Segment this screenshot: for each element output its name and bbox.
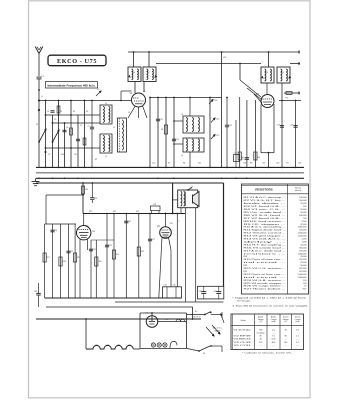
trimmer arrow C13 <box>211 100 213 102</box>
wire: vert x185.4 <box>184 214 186 303</box>
svg-text:S1: S1 <box>203 353 205 355</box>
svg-text:V2: V2 <box>107 345 109 347</box>
dial lamp LP3 <box>163 343 167 347</box>
svg-text:C25: C25 <box>290 125 293 127</box>
svg-text:C19: C19 <box>262 163 265 165</box>
trimmer arrow C15 <box>213 135 215 137</box>
svg-text:C4: C4 <box>47 111 49 113</box>
svg-text:1,500: 1,500 <box>301 241 307 243</box>
svg-text:S4: S4 <box>190 188 192 190</box>
wire: stubs to osc coils <box>174 120 183 122</box>
resistor R8 on x255.4 <box>254 152 257 160</box>
capacitor C30 <box>50 229 54 231</box>
resistor R18 <box>59 257 62 266</box>
svg-text:EKCO - U75: EKCO - U75 <box>57 58 97 65</box>
capacitor C10 on x158 <box>156 118 160 120</box>
capacitor C32 <box>66 250 70 252</box>
output transformer T1 <box>178 190 198 208</box>
svg-text:R7 V2 fixed G.B. ...: R7 V2 fixed G.B. ... <box>244 218 287 220</box>
svg-text:S1: S1 <box>36 124 38 126</box>
svg-text:L4: L4 <box>181 114 183 116</box>
resistor R19 <box>74 253 77 262</box>
wire: aerial bus y100.5 <box>39 100 131 102</box>
capacitor C16 <box>225 124 229 126</box>
svg-text:25,000: 25,000 <box>300 256 307 258</box>
svg-text:1.1: 1.1 <box>296 336 299 338</box>
svg-text:L6: L6 <box>133 72 135 74</box>
wire: AF vert x96.3 <box>95 240 97 298</box>
wire: link y152.7 <box>261 152 274 154</box>
svg-text:128: 128 <box>259 329 262 331</box>
wire: vert x192.5 <box>192 307 194 319</box>
svg-text:50,000: 50,000 <box>300 212 307 214</box>
wire: rail drop x149 <box>148 52 150 67</box>
svg-text:V1 6C9 (fc): V1 6C9 (fc) <box>234 329 252 331</box>
svg-text:trol circuit ...: trol circuit ... <box>244 276 288 279</box>
capacitor C28 <box>105 244 109 246</box>
svg-text:R12 Volume control ...: R12 Volume control ... <box>244 232 287 235</box>
mains arrows A.C. or D.C. <box>206 327 214 336</box>
wire: bus y172.9 <box>36 172 304 174</box>
svg-text:C33: C33 <box>153 204 156 206</box>
svg-text:C11: C11 <box>74 154 77 156</box>
junction dots anode bus <box>106 213 108 215</box>
wire: AF vert x68.5 <box>68 224 70 298</box>
svg-text:—: — <box>273 345 275 347</box>
capacitor C25 on x295.6 <box>294 125 298 127</box>
svg-text:R25 V4 anode stopper ...: R25 V4 anode stopper ... <box>244 282 287 285</box>
svg-text:25,000: 25,000 <box>300 203 307 205</box>
wire: link y115 <box>46 114 101 116</box>
capacitor C21 on x246.9 <box>245 157 249 159</box>
svg-text:R24: R24 <box>98 261 101 263</box>
oscillator coil L5 <box>181 138 204 157</box>
svg-text:1,000,000: 1,000,000 <box>298 253 308 255</box>
switch S1a wave-change <box>39 129 46 142</box>
wire: HT right vertical x223.5 <box>223 183 225 286</box>
svg-text:R25: R25 <box>141 251 144 253</box>
svg-text:L1: L1 <box>105 103 107 105</box>
svg-text:V2 EF39: V2 EF39 <box>234 336 251 338</box>
fuse / thermal R26 <box>176 319 185 321</box>
svg-text:—: — <box>297 345 299 347</box>
svg-text:R14 V3 G.B. A.G.C. ...: R14 V3 G.B. A.G.C. ... <box>244 238 287 241</box>
wire: vert x186.5 <box>186 313 188 348</box>
wire: AF vert x126.3 <box>125 214 127 299</box>
wire: vert x86 heater feed <box>85 319 87 349</box>
table: RESISTORS values <box>242 184 309 294</box>
wire: anode bus y213.5 <box>83 213 185 215</box>
wire: rail drop x268.5 <box>268 52 270 67</box>
svg-text:L3: L3 <box>128 112 130 114</box>
coil L3 with core <box>118 118 127 152</box>
valve V5 (rectifier) <box>146 313 158 328</box>
svg-text:C44: C44 <box>199 291 202 293</box>
svg-text:R1: R1 <box>60 111 62 113</box>
svg-text:R20: R20 <box>89 211 92 213</box>
wire: grid link y195 <box>46 194 83 196</box>
svg-text:feeder divider ...: feeder divider ... <box>244 203 287 205</box>
wire: IFT1 to V1 <box>134 82 136 94</box>
svg-text:2,200: 2,200 <box>301 239 307 241</box>
wire: AF vert x60.5 <box>60 224 62 298</box>
svg-text:L7: L7 <box>148 72 150 74</box>
svg-text:R19 Parts of tone con- ...: R19 Parts of tone con- ... <box>244 258 287 261</box>
svg-text:V4: V4 <box>129 345 131 347</box>
svg-text:R13 V3 grid stopper ...: R13 V3 grid stopper ... <box>244 235 287 238</box>
trimmer arrow C14 <box>213 118 215 120</box>
resistor R15 <box>112 250 115 259</box>
wire: link y123 <box>53 122 101 124</box>
svg-text:1,000,000: 1,000,000 <box>298 236 308 238</box>
capacitor C29 <box>89 248 93 250</box>
svg-text:C43: C43 <box>34 291 37 293</box>
wire: vert x210 <box>209 98 211 168</box>
capacitor C31a <box>91 183 93 197</box>
svg-text:R18: R18 <box>63 261 66 263</box>
node: aerial junction <box>38 89 40 91</box>
svg-text:4.1: 4.1 <box>296 342 299 344</box>
wire: bus y167.4 (chassis) <box>36 166 304 168</box>
label: Intermediate Frequency 465 kc/s <box>46 82 98 89</box>
svg-text:(V): (V) <box>285 321 288 323</box>
svg-text:C35: C35 <box>173 285 176 287</box>
svg-text:100,000: 100,000 <box>299 215 307 217</box>
svg-text:C39: C39 <box>92 231 95 233</box>
coil L2 aerial <box>100 134 112 158</box>
switch S2 <box>187 314 205 316</box>
heater chain V1-V4 heaters <box>86 345 133 349</box>
capacitor C1 in aerial lead <box>37 76 42 78</box>
IF transformer IFT1 primary <box>128 67 141 82</box>
oscillator coil L4 <box>181 114 204 133</box>
svg-text:delay ...: delay ... <box>244 241 289 243</box>
dial lamp LP2 <box>157 343 161 347</box>
resistor R2 on x71 <box>70 128 73 135</box>
svg-text:L2: L2 <box>113 127 115 129</box>
ganged capacitor C3 arrow <box>96 91 101 96</box>
svg-text:Valve: Valve <box>240 320 246 322</box>
valve V1 (triode-hexode frequency changer) <box>130 91 146 107</box>
svg-text:C13: C13 <box>214 100 217 102</box>
svg-text:S2: S2 <box>195 311 197 313</box>
svg-text:5,000,000: 5,000,000 <box>298 274 308 276</box>
wire: lamp compartment wall <box>139 313 141 348</box>
wire: vert x236 upper <box>235 120 237 167</box>
svg-text:‡ Two 80 Ω resistors in series: ‡ Two 80 Ω resistors in series in out we… <box>232 304 309 307</box>
switch S4 on transformer <box>187 189 189 191</box>
wire: vert x46 <box>45 195 47 224</box>
svg-text:85: 85 <box>260 336 262 338</box>
svg-text:R22: R22 <box>136 211 139 213</box>
svg-text:A.C. or D.C.: A.C. or D.C. <box>213 327 223 330</box>
svg-text:470,000: 470,000 <box>299 268 307 270</box>
svg-text:* Tapped at 240 Ω + 160 Ω + 10: * Tapped at 240 Ω + 160 Ω + 100 Ω from <box>232 297 306 300</box>
capacitor C5 on x64.5 <box>63 129 67 131</box>
svg-text:2,500: 2,500 <box>301 221 307 223</box>
wire: rail drop x133 <box>133 52 135 67</box>
svg-text:L2: L2 <box>105 156 107 158</box>
svg-text:C40: C40 <box>214 291 217 293</box>
svg-text:Intermediate Frequency 465 kc/: Intermediate Frequency 465 kc/s. <box>48 83 96 87</box>
svg-text:R5 Osc. anode load ...: R5 Osc. anode load ... <box>244 212 287 214</box>
svg-text:1,000,000: 1,000,000 <box>298 227 308 229</box>
capacitor C4 on x52.5 <box>51 110 55 112</box>
wire: rail y93 <box>284 92 300 94</box>
coil L1 aerial <box>100 103 112 124</box>
thermistor loop <box>170 341 177 348</box>
svg-text:R1 V1 A.G.C. decoup ...: R1 V1 A.G.C. decoup ... <box>244 196 287 199</box>
wire: vert x64.5 <box>64 123 66 167</box>
wire: vert x177.3 <box>176 214 178 287</box>
wire: vert x84.5 <box>84 101 86 168</box>
wire: heater chain to compartment <box>133 348 140 350</box>
svg-text:47,000: 47,000 <box>300 224 307 226</box>
svg-text:R3 V1 fixed G.B. ...: R3 V1 fixed G.B. ... <box>244 206 287 208</box>
svg-text:C30: C30 <box>54 230 57 232</box>
svg-text:470,000: 470,000 <box>299 259 307 261</box>
wire: AF vert x114 <box>113 214 115 299</box>
IF transformer IFT2 primary <box>261 67 274 83</box>
svg-text:R9: R9 <box>250 163 252 165</box>
resistor R7 on x239.7 <box>238 152 241 160</box>
svg-text:C20: C20 <box>276 163 279 165</box>
wire: bus y183 (AVC line) <box>36 182 224 184</box>
svg-text:R11 Signal diode load ...: R11 Signal diode load ... <box>244 230 287 232</box>
switch S1 mains <box>199 346 210 351</box>
wire: V2 envelope down left <box>260 105 262 153</box>
wire: vert x255.4 <box>254 100 256 167</box>
wire: vert x150 <box>149 98 151 168</box>
svg-text:R21: R21 <box>113 211 116 213</box>
wire: vert x195.7 <box>195 208 197 302</box>
svg-text:L9: L9 <box>282 72 284 74</box>
svg-text:25,000: 25,000 <box>300 265 307 267</box>
wire: rail drop x221.5 <box>221 52 223 98</box>
resistor R25 <box>137 247 140 256</box>
wire: IFT2 secondary down x282 <box>281 83 283 167</box>
svg-text:—: — <box>297 339 299 341</box>
wire: vert x246.9 <box>246 100 248 167</box>
wire: fan into V2 <box>240 80 261 97</box>
wire: vert x166 <box>165 98 167 168</box>
wire: V4 pins <box>165 214 167 227</box>
svg-text:C27: C27 <box>152 239 155 241</box>
resistor R16 <box>82 183 84 214</box>
capacitor C17 box <box>234 155 240 162</box>
svg-text:R21 V4 C.G. resistor ...: R21 V4 C.G. resistor ... <box>244 267 287 270</box>
svg-text:resistors ...: resistors ... <box>244 252 288 255</box>
svg-text:C26: C26 <box>298 163 301 165</box>
wire: vert x52.5 <box>52 115 54 167</box>
svg-text:V3 EBC33: V3 EBC33 <box>234 339 251 341</box>
svg-text:C21: C21 <box>241 159 244 161</box>
resistor R17 <box>43 253 46 262</box>
svg-text:R17: R17 <box>47 257 50 259</box>
svg-text:L1: L1 <box>41 96 43 98</box>
svg-text:(mA): (mA) <box>296 320 300 323</box>
svg-text:V5 CY31: V5 CY31 <box>234 345 251 347</box>
wire: mains stubs <box>221 312 223 318</box>
wire: aerial down x39 <box>38 79 40 167</box>
ground chassis symbol <box>32 178 40 185</box>
dial lamp LP1 <box>151 343 155 347</box>
wire: vert x190 bottom <box>189 152 191 167</box>
wire: bus y313 <box>140 312 187 314</box>
svg-text:trol circuit ...: trol circuit ... <box>244 261 288 264</box>
svg-text:5,000,000: 5,000,000 <box>298 277 308 279</box>
svg-text:RESISTORS: RESISTORS <box>255 188 272 192</box>
wire: right vert x295.6 <box>295 101 297 168</box>
wire: V2 envelope down right <box>273 104 275 153</box>
svg-text:25,000: 25,000 <box>300 262 307 264</box>
svg-text:45: 45 <box>260 339 262 341</box>
svg-text:C26: C26 <box>170 223 173 225</box>
svg-text:R15 H.T. decoupling ...: R15 H.T. decoupling ... <box>244 244 287 246</box>
wire: AF vert x91 <box>90 240 92 298</box>
capacitor C31b <box>124 220 128 222</box>
wire: AF vert x150 <box>149 214 151 299</box>
svg-text:C14: C14 <box>216 119 219 121</box>
resistor R4 on x166 <box>164 125 167 134</box>
svg-text:(ohms): (ohms) <box>295 190 302 192</box>
svg-text:1.6: 1.6 <box>296 329 299 331</box>
antenna <box>35 47 43 77</box>
svg-text:R27 Heater ballast ...: R27 Heater ballast ... <box>244 288 287 291</box>
svg-text:470,000: 470,000 <box>299 230 307 232</box>
wire: vert x190 top <box>189 98 191 117</box>
wire: vert x174 <box>173 98 175 168</box>
svg-text:470,000: 470,000 <box>299 271 307 273</box>
svg-text:V1: V1 <box>96 345 98 347</box>
switch S1b <box>53 130 60 142</box>
svg-text:R10 A.G.C. decoupling ...: R10 A.G.C. decoupling ... <box>244 226 287 229</box>
IF transformer IFT1 secondary <box>143 67 156 82</box>
loudspeaker <box>193 192 200 207</box>
svg-text:350,000: 350,000 <box>299 247 307 249</box>
wire: IFT2 primary down to V2 <box>266 83 268 94</box>
svg-text:C40: C40 <box>152 163 155 165</box>
wire: bus y178.3 <box>36 177 304 179</box>
svg-text:R6: R6 <box>286 98 288 100</box>
resistor R22 top hat <box>151 206 161 211</box>
valve V2 (IF amplifier) <box>256 93 274 108</box>
svg-text:L5: L5 <box>181 155 183 157</box>
svg-text:C3: C3 <box>97 89 99 91</box>
svg-text:C34: C34 <box>164 285 167 287</box>
wire: AF vert x107 <box>106 214 108 299</box>
svg-text:C16: C16 <box>229 125 232 127</box>
wire: V1 grid lead y91 <box>121 90 132 92</box>
wire: drop x268.5 to bus <box>268 153 270 168</box>
IF transformer IFT2 secondary <box>277 67 290 83</box>
svg-text:40.0: 40.0 <box>272 342 276 344</box>
svg-text:—: — <box>285 339 287 341</box>
wire: OPT leads <box>180 208 182 214</box>
wire: vert x78 <box>77 115 79 167</box>
svg-text:C41: C41 <box>198 163 201 165</box>
svg-text:140 TR T2: 140 TR T2 <box>193 317 201 319</box>
wire: bus y319 <box>36 318 201 320</box>
svg-text:R16: R16 <box>85 189 88 191</box>
resistor R24 <box>95 257 98 266</box>
capacitor C43 bottom left <box>38 283 40 293</box>
svg-text:R23 Parts of fuse con- ...: R23 Parts of fuse con- ... <box>244 273 287 276</box>
svg-text:C29: C29 <box>93 249 96 251</box>
svg-text:R6 V2 S.G. feed ...: R6 V2 S.G. feed ... <box>244 215 287 217</box>
electrolytic capacitors C34 C35 <box>163 285 182 299</box>
svg-text:C18: C18 <box>243 163 246 165</box>
svg-text:R17 A.G.C. diode load ...: R17 A.G.C. diode load ... <box>244 249 287 252</box>
svg-text:R3: R3 <box>86 111 88 113</box>
svg-text:R4 V1 osc. C.G. ...: R4 V1 osc. C.G. ... <box>244 209 287 211</box>
svg-text:20,000: 20,000 <box>300 244 307 246</box>
svg-text:R15: R15 <box>116 254 119 256</box>
wire: link y240 <box>91 239 114 241</box>
valve V4 (output pentode) <box>157 223 173 238</box>
capacitor C6 on x78 <box>76 138 80 140</box>
wire: rect anode <box>151 313 153 316</box>
svg-text:350,000: 350,000 <box>299 200 307 202</box>
wire: vert x239.7 <box>239 97 241 167</box>
wire: rail drop x240 <box>239 64 241 81</box>
wire: V3 pins <box>79 240 81 299</box>
svg-text:750*: 750* <box>302 289 306 291</box>
svg-text:V3: V3 <box>118 345 120 347</box>
wire: cathode link y224 <box>45 223 76 225</box>
svg-text:C6: C6 <box>66 127 68 129</box>
node dots front end <box>38 109 40 111</box>
svg-text:R8 H.F. feed resistor ...: R8 H.F. feed resistor ... <box>244 220 287 223</box>
svg-text:L8: L8 <box>266 72 268 74</box>
svg-text:170: 170 <box>259 342 262 344</box>
svg-text:C5: C5 <box>54 119 56 121</box>
svg-text:R6: R6 <box>183 163 185 165</box>
svg-text:C15: C15 <box>216 135 219 137</box>
wire: AF vert x138.8 <box>138 214 140 299</box>
svg-text:R16 V3 anode load ...: R16 V3 anode load ... <box>244 247 287 249</box>
svg-text:25,000: 25,000 <box>300 209 307 211</box>
svg-text:C31: C31 <box>128 221 131 223</box>
wire: mid rail y63.5 <box>156 63 261 65</box>
svg-text:165: 165 <box>284 342 287 344</box>
svg-text:C28: C28 <box>109 245 112 247</box>
wire: vert x58.5 <box>58 101 60 168</box>
trimmer arrows IFT1 <box>128 75 130 77</box>
svg-text:C31: C31 <box>94 198 97 200</box>
wire: rect cathode lead <box>158 321 187 323</box>
wire: bus y298 <box>45 297 182 299</box>
svg-text:C10: C10 <box>160 119 163 121</box>
svg-text:(V): (V) <box>260 321 263 323</box>
trimmer arrows IFT2 <box>261 76 263 78</box>
wire: rail y100.5 right <box>279 100 301 102</box>
capacitor C27 <box>148 238 152 240</box>
svg-text:R8: R8 <box>257 157 259 159</box>
svg-text:7.0: 7.0 <box>272 336 275 338</box>
svg-text:—: — <box>260 345 262 347</box>
svg-text:MAINS: MAINS <box>215 329 222 332</box>
svg-text:—: — <box>273 333 275 335</box>
svg-text:C32: C32 <box>70 251 73 253</box>
svg-text:V4 CL33: V4 CL33 <box>234 342 251 344</box>
svg-text:R14: R14 <box>61 154 64 156</box>
smoothing capacitor block C44 C40 <box>198 286 224 299</box>
svg-text:R4: R4 <box>161 129 163 131</box>
svg-text:0.35: 0.35 <box>272 339 276 341</box>
svg-text:C12: C12 <box>176 139 179 141</box>
svg-text:R24 V4 G.B. resistor ...: R24 V4 G.B. resistor ... <box>244 279 287 282</box>
